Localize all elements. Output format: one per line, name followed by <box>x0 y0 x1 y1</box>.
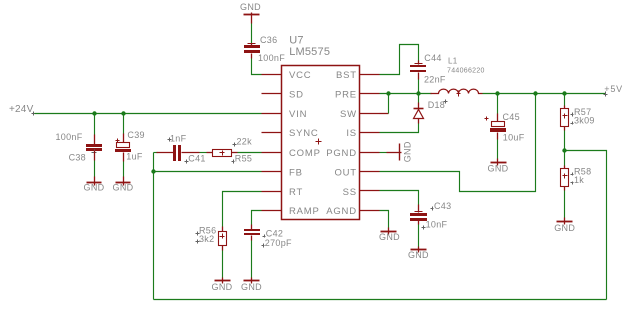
svg-text:1uF: 1uF <box>126 151 143 161</box>
pin VCC stub <box>262 74 282 76</box>
diode D18 <box>414 96 448 124</box>
svg-text:SYNC: SYNC <box>289 128 319 139</box>
wire PRE / SW output net <box>380 93 432 95</box>
wire R57 to divider node <box>564 131 566 166</box>
svg-text:10nF: 10nF <box>426 220 448 230</box>
svg-text:GND: GND <box>554 223 575 233</box>
wire C38 to GND <box>94 161 96 177</box>
svg-text:RT: RT <box>289 187 303 198</box>
wire L1 to +5V <box>483 93 606 95</box>
ground GND (top, above C36) <box>240 2 261 23</box>
svg-text:AGND: AGND <box>326 206 357 217</box>
svg-text:3k09: 3k09 <box>574 115 595 125</box>
pin SD stub <box>262 93 282 95</box>
resistor R55 22k <box>207 137 253 164</box>
wire net to C45 <box>497 96 499 114</box>
svg-text:22nF: 22nF <box>424 74 446 84</box>
svg-text:3k2: 3k2 <box>199 234 214 244</box>
wire C42 to GND <box>251 241 253 278</box>
pin RT stub <box>262 191 282 193</box>
capacitor C43 10nF <box>410 201 451 230</box>
svg-text:OUT: OUT <box>334 167 356 178</box>
svg-text:C43: C43 <box>434 201 451 211</box>
svg-text:LM5575: LM5575 <box>289 46 330 58</box>
svg-text:GND: GND <box>113 183 134 193</box>
wire comp network left <box>154 152 158 154</box>
wire D18 to IS pin <box>380 124 419 133</box>
svg-text:GND: GND <box>379 232 400 242</box>
svg-text:GND: GND <box>488 164 509 174</box>
wire C39 to GND <box>123 162 125 177</box>
wire bottom feedback rail <box>154 299 607 301</box>
svg-text:SD: SD <box>289 89 304 100</box>
svg-text:GND: GND <box>408 250 429 260</box>
wire R56 to GND <box>222 251 224 278</box>
capacitor C39 1uF (polarized) <box>115 130 145 162</box>
wire R55 to COMP pin <box>238 152 262 154</box>
wire C45 to GND <box>497 140 499 159</box>
node SW junction <box>386 91 390 95</box>
wire C44 to SW node <box>418 80 420 94</box>
svg-text:22k: 22k <box>237 137 253 147</box>
inductor L1 744066220 <box>431 57 485 97</box>
svg-text:GND: GND <box>402 141 412 162</box>
resistor R57 3k09 <box>561 106 595 131</box>
svg-text:270pF: 270pF <box>265 238 292 248</box>
svg-text:10uF: 10uF <box>503 132 525 142</box>
ground GND (under R58) <box>554 218 575 233</box>
svg-text:BST: BST <box>336 70 357 81</box>
pin OUT stub <box>360 171 380 173</box>
ground GND (at PGND, rotated) <box>387 141 413 162</box>
svg-text:GND: GND <box>241 282 262 292</box>
svg-text:VIN: VIN <box>289 109 307 120</box>
pin SW stub <box>360 113 380 115</box>
svg-text:100nF: 100nF <box>55 132 82 142</box>
wire PGND to GND <box>380 152 387 154</box>
pin SS stub <box>360 190 380 192</box>
svg-text:IS: IS <box>346 128 357 139</box>
svg-text:1k: 1k <box>574 175 584 185</box>
pin PRE stub <box>360 93 380 95</box>
wire rail to C38 <box>94 115 96 135</box>
wire rail to C39 <box>123 115 125 134</box>
node divider junction <box>562 148 566 152</box>
pin COMP stub <box>262 152 282 154</box>
wire SW pin up to net <box>380 113 389 115</box>
node FB junction <box>151 169 155 173</box>
svg-text:1nF: 1nF <box>170 134 187 144</box>
svg-text:FB: FB <box>289 167 303 178</box>
capacitor C45 10uF (polarized) <box>485 112 525 142</box>
capacitor C41 1nF <box>157 134 206 164</box>
svg-text:GND: GND <box>240 2 261 12</box>
ground GND (under C43) <box>408 247 429 261</box>
ground GND (under C42) <box>241 278 262 292</box>
capacitor C44 22nF <box>410 53 446 84</box>
ground GND (under C45) <box>488 159 509 174</box>
pin RAMP stub <box>262 210 282 212</box>
svg-text:C42: C42 <box>266 228 283 238</box>
wire AGND to GND <box>380 211 389 228</box>
svg-text:GND: GND <box>212 282 233 292</box>
svg-text:COMP: COMP <box>289 148 321 159</box>
svg-text:PGND: PGND <box>326 148 357 159</box>
svg-text:SS: SS <box>343 187 357 198</box>
svg-text:100nF: 100nF <box>258 53 285 63</box>
svg-text:PRE: PRE <box>335 89 357 100</box>
svg-text:C39: C39 <box>127 130 144 140</box>
wire R58 to GND <box>564 191 566 218</box>
wire C36 to VCC pin <box>252 59 262 75</box>
svg-text:GND: GND <box>84 183 105 193</box>
wire GND to C36 <box>251 24 253 44</box>
pin SYNC stub <box>262 132 282 134</box>
svg-text:L1: L1 <box>448 57 458 66</box>
resistor R56 3k2 <box>196 226 227 251</box>
svg-text:+24V: +24V <box>9 104 34 115</box>
pin labels left <box>289 70 321 217</box>
wire SS to C43 <box>380 191 419 205</box>
pin PGND stub <box>360 152 380 154</box>
ground GND (under C38) <box>84 177 105 193</box>
wire RT to R56 <box>223 192 262 227</box>
svg-text:R55: R55 <box>235 154 252 164</box>
IC U7 LM5575 <box>282 35 360 220</box>
junction node C39 <box>121 111 125 115</box>
node C45 junction <box>495 91 499 95</box>
svg-text:+5V: +5V <box>604 84 623 94</box>
wire BST loop <box>380 45 419 75</box>
pin VIN stub <box>262 113 282 115</box>
capacitor C36 100nF <box>244 35 285 63</box>
pin FB stub <box>262 171 282 173</box>
svg-text:D18: D18 <box>428 100 445 110</box>
svg-text:744066220: 744066220 <box>447 68 485 75</box>
ground GND (at AGND) <box>379 228 400 243</box>
capacitor C42 270pF <box>244 225 292 249</box>
wire +24V rail to VIN <box>35 113 262 115</box>
ground GND (under C39) <box>113 177 134 193</box>
resistor R58 1k <box>561 166 592 191</box>
pin labels right <box>326 70 357 217</box>
wire FB to pin <box>154 171 262 173</box>
svg-text:SW: SW <box>340 109 357 120</box>
node C44/D18 junction <box>416 91 420 95</box>
svg-text:C41: C41 <box>188 154 205 164</box>
wire C43 to GND <box>418 225 420 247</box>
supply +24V <box>9 104 36 116</box>
svg-text:U7: U7 <box>289 35 303 47</box>
svg-text:C45: C45 <box>503 112 520 122</box>
svg-text:C36: C36 <box>260 35 277 45</box>
junction node C38 <box>92 111 96 115</box>
node OUT junction <box>533 91 537 95</box>
wire C41 to R55 <box>200 152 207 154</box>
svg-text:RAMP: RAMP <box>289 206 320 217</box>
wire FB vertical to bottom rail <box>153 153 155 300</box>
svg-text:VCC: VCC <box>289 70 311 81</box>
ground GND (under R56) <box>212 278 233 292</box>
wire OUT loop to output node <box>380 96 536 192</box>
wire net to R57 <box>564 96 566 106</box>
node R57 junction <box>562 91 566 95</box>
wire divider to feedback drop <box>565 151 607 300</box>
svg-text:C38: C38 <box>69 152 86 162</box>
pin AGND stub <box>360 210 380 212</box>
capacitor C38 100nF <box>55 132 102 162</box>
pin BST stub <box>360 74 380 76</box>
svg-text:C44: C44 <box>424 53 441 63</box>
supply +5V <box>604 84 623 97</box>
pin IS stub <box>360 132 380 134</box>
wire RAMP to C42 <box>252 211 262 225</box>
